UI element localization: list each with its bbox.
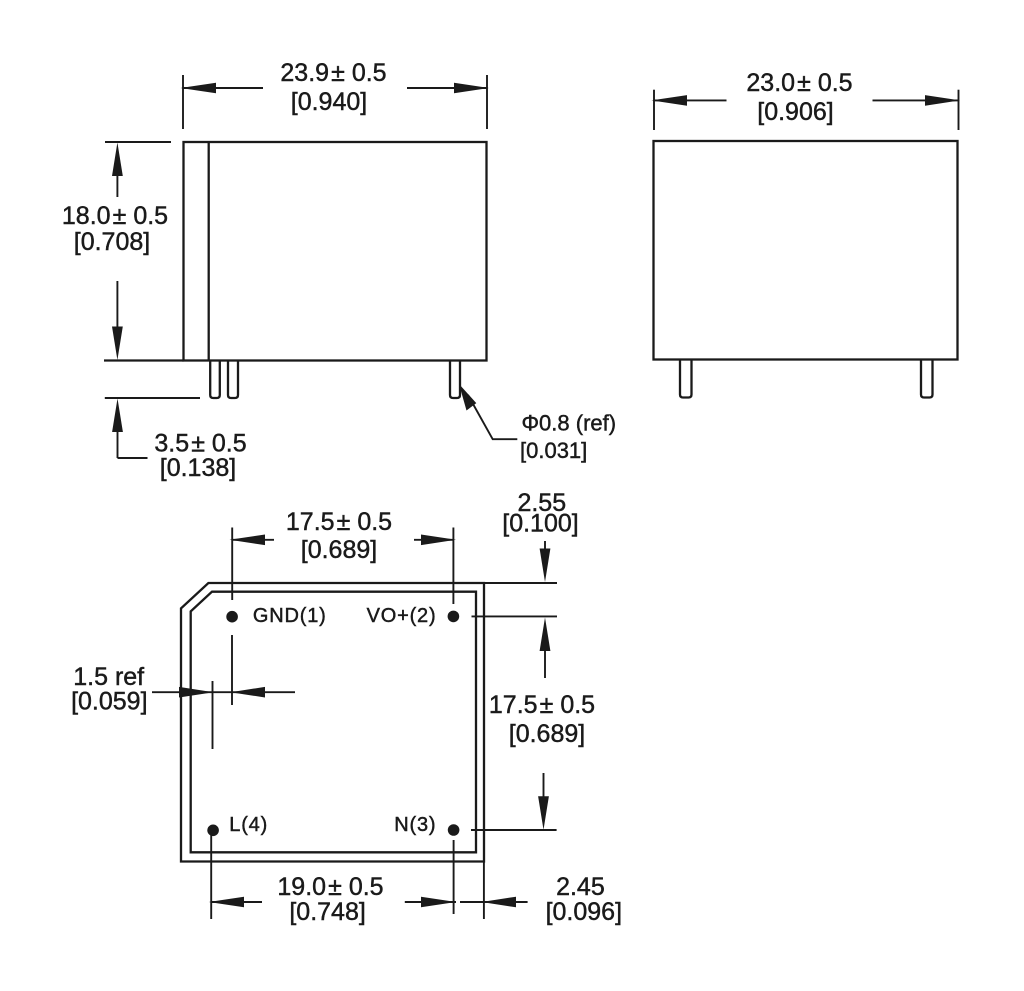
svg-text:N(3): N(3) <box>394 814 436 836</box>
dim 17.5 top right arrow <box>421 535 456 546</box>
svg-text:17.5 ± 0.5: 17.5 ± 0.5 <box>286 508 392 536</box>
dim 1.5 right-pointing arrow <box>179 687 214 698</box>
dim 17.5 right bottom arrow <box>538 796 549 830</box>
front body outline <box>184 142 487 361</box>
dim 3.5 leader <box>118 457 148 459</box>
svg-text:[0.708]: [0.708] <box>74 228 150 256</box>
dim 19.0 extension line left <box>210 835 212 919</box>
dim 17.5 top left arrow <box>230 535 266 546</box>
svg-text:[0.689]: [0.689] <box>301 536 377 564</box>
svg-text:2.45: 2.45 <box>556 873 605 901</box>
svg-text:VO+(2): VO+(2) <box>367 605 437 627</box>
bottom view inner outline <box>191 592 476 853</box>
dim 23.9 extension line right <box>486 75 488 129</box>
dim 23.0 extension line right <box>958 90 960 130</box>
svg-text:23.0 ± 0.5: 23.0 ± 0.5 <box>746 69 852 97</box>
bottom view outer outline <box>181 583 484 862</box>
pad GND(1) <box>226 611 238 623</box>
svg-text:19.0 ± 0.5: 19.0 ± 0.5 <box>277 873 383 901</box>
pad N(3) <box>448 824 460 836</box>
pin diameter leader line <box>468 395 517 439</box>
pin diameter leader arrow <box>459 384 476 411</box>
pad VO+(2) <box>448 611 460 623</box>
svg-text:[0.748]: [0.748] <box>289 898 365 926</box>
dim 23.0 left arrow <box>652 95 688 106</box>
right edge extension down <box>483 862 485 920</box>
N row extension to right <box>471 829 557 831</box>
BOTTOM VIEW <box>71 489 622 926</box>
dim 2.55 arrow <box>540 549 551 583</box>
front pin 1 <box>210 361 220 399</box>
pad L(4) <box>207 825 219 837</box>
dim 18.0 top arrow <box>112 143 123 177</box>
dim 3.5 arrow <box>112 399 123 433</box>
svg-text:[0.906]: [0.906] <box>757 98 833 126</box>
svg-text:[0.096]: [0.096] <box>546 898 622 926</box>
svg-text:17.5 ± 0.5: 17.5 ± 0.5 <box>489 691 595 719</box>
dim 17.5 top extension line right <box>452 528 454 605</box>
dim 19.0 extension line right <box>453 840 455 914</box>
svg-text:L(4): L(4) <box>229 814 268 836</box>
dim 2.45 left-pointing arrow <box>482 897 517 908</box>
VO+ row extension to right <box>472 615 558 617</box>
pin bottom extension line <box>105 397 200 399</box>
svg-text:[0.059]: [0.059] <box>71 687 147 715</box>
svg-text:[0.138]: [0.138] <box>160 454 236 482</box>
svg-text:Φ0.8 (ref): Φ0.8 (ref) <box>522 411 617 436</box>
SIDE VIEW <box>652 69 961 398</box>
svg-text:[0.100]: [0.100] <box>502 510 578 538</box>
top edge extension tick <box>105 141 171 143</box>
dim 17.5 top extension line left <box>231 528 233 601</box>
front pin 3 <box>450 361 460 399</box>
dim 23.0 extension line left <box>653 90 655 130</box>
L column extension line upper <box>212 681 214 749</box>
dim 23.0 right arrow <box>925 95 960 106</box>
svg-text:18.0 ± 0.5: 18.0 ± 0.5 <box>62 202 168 230</box>
bottom edge extension line <box>104 359 184 361</box>
dim 17.5 right top arrow <box>540 618 551 652</box>
svg-text:[0.689]: [0.689] <box>509 720 585 748</box>
dim 19.0 left arrow <box>209 897 244 908</box>
svg-text:GND(1): GND(1) <box>253 605 327 627</box>
front pin 2 <box>228 361 238 399</box>
FRONT VIEW <box>62 59 616 482</box>
svg-text:[0.031]: [0.031] <box>520 438 587 463</box>
front flange line <box>208 142 210 361</box>
dim 1.5 leader line <box>152 691 295 693</box>
top edge extension to right <box>484 582 557 584</box>
svg-text:[0.940]: [0.940] <box>291 88 367 116</box>
dim 1.5 left-pointing arrow <box>231 687 266 698</box>
svg-text:23.9 ± 0.5: 23.9 ± 0.5 <box>280 59 386 87</box>
side body outline <box>654 141 958 360</box>
dim 23.9 extension line left <box>182 75 184 129</box>
dim 23.9 right arrow <box>454 83 489 94</box>
side pin right <box>921 360 933 398</box>
GND column extension line lower <box>231 635 233 705</box>
dim 18.0 bottom arrow <box>112 327 123 361</box>
dim 19.0 right arrow <box>421 897 456 908</box>
side pin left <box>680 360 692 398</box>
dim 23.9 left arrow <box>181 83 217 94</box>
